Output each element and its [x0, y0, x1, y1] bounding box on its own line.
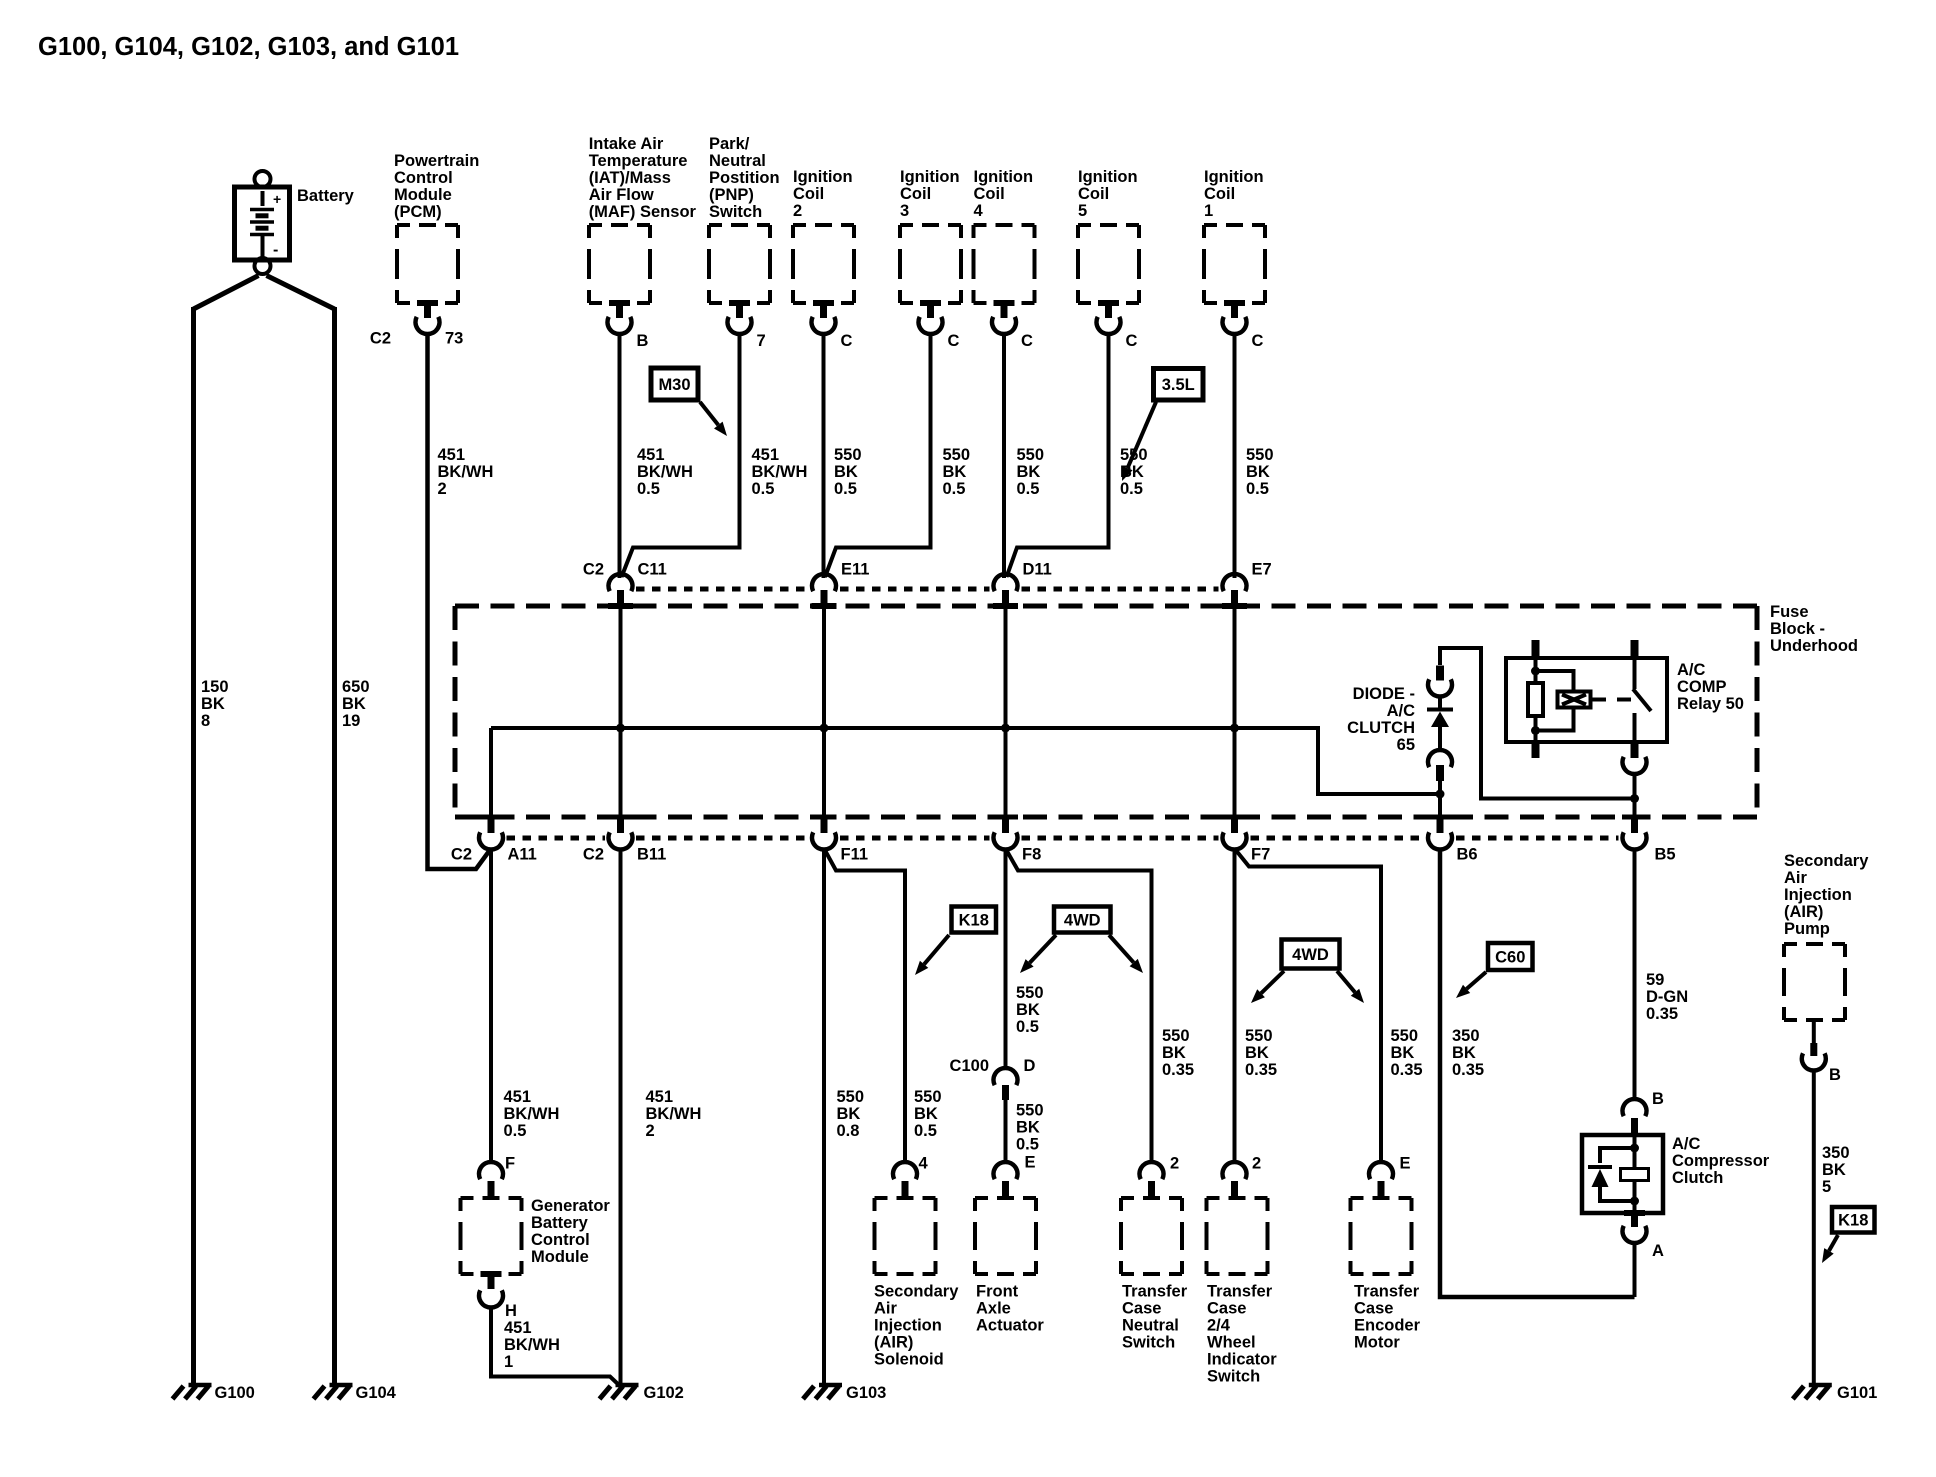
svg-text:Front: Front [976, 1283, 1019, 1301]
svg-text:Air: Air [1784, 869, 1808, 887]
svg-text:DIODE -: DIODE - [1353, 685, 1415, 703]
svg-text:Solenoid: Solenoid [874, 1351, 944, 1369]
svg-text:BK: BK [1391, 1044, 1415, 1062]
svg-text:B6: B6 [1457, 846, 1478, 864]
svg-text:2: 2 [646, 1122, 655, 1140]
svg-text:G100: G100 [215, 1384, 255, 1402]
svg-text:Generator: Generator [531, 1197, 610, 1215]
svg-text:3: 3 [900, 202, 909, 220]
svg-text:CLUTCH: CLUTCH [1347, 719, 1415, 737]
svg-text:-: - [273, 242, 278, 259]
svg-text:E11: E11 [841, 561, 869, 579]
svg-text:BK: BK [914, 1105, 938, 1123]
svg-text:2/4: 2/4 [1207, 1317, 1231, 1335]
svg-text:550: 550 [1245, 1027, 1273, 1045]
svg-text:B5: B5 [1655, 846, 1676, 864]
svg-text:0.8: 0.8 [837, 1122, 860, 1140]
svg-text:451: 451 [646, 1088, 674, 1106]
svg-text:Module: Module [531, 1248, 589, 1266]
svg-text:550: 550 [1162, 1027, 1190, 1045]
svg-text:451: 451 [438, 446, 466, 464]
svg-text:Transfer: Transfer [1122, 1283, 1188, 1301]
svg-text:A/C: A/C [1677, 661, 1706, 679]
svg-text:Coil: Coil [974, 185, 1005, 203]
svg-text:H: H [505, 1302, 517, 1320]
svg-text:550: 550 [1016, 1102, 1044, 1120]
svg-text:Temperature: Temperature [589, 152, 688, 170]
svg-text:550: 550 [834, 446, 862, 464]
svg-text:A/C: A/C [1387, 702, 1416, 720]
svg-text:BK/WH: BK/WH [504, 1336, 560, 1354]
svg-text:65: 65 [1397, 736, 1415, 754]
svg-text:Injection: Injection [874, 1317, 942, 1335]
svg-text:2: 2 [793, 202, 802, 220]
svg-text:4WD: 4WD [1292, 946, 1329, 964]
svg-text:A11: A11 [508, 846, 537, 864]
svg-text:BK: BK [201, 695, 225, 713]
svg-text:Switch: Switch [1122, 1334, 1175, 1352]
svg-text:59: 59 [1646, 971, 1664, 989]
svg-text:COMP: COMP [1677, 678, 1727, 696]
svg-text:C2: C2 [370, 330, 391, 348]
svg-text:Neutral: Neutral [709, 152, 766, 170]
svg-text:Coil: Coil [900, 185, 931, 203]
svg-text:(AIR): (AIR) [1784, 903, 1823, 921]
svg-text:C2: C2 [583, 846, 604, 864]
svg-text:Wheel: Wheel [1207, 1334, 1256, 1352]
svg-text:C: C [1126, 332, 1138, 350]
svg-text:451: 451 [504, 1088, 532, 1106]
svg-text:550: 550 [1391, 1027, 1419, 1045]
svg-text:F11: F11 [841, 846, 869, 864]
svg-text:0.35: 0.35 [1646, 1005, 1678, 1023]
svg-text:M30: M30 [658, 376, 690, 394]
svg-text:0.5: 0.5 [637, 480, 660, 498]
svg-text:Air: Air [874, 1300, 898, 1318]
svg-text:2: 2 [1170, 1155, 1179, 1173]
svg-text:BK: BK [943, 463, 967, 481]
svg-text:150: 150 [201, 678, 229, 696]
svg-text:Case: Case [1122, 1300, 1161, 1318]
svg-text:BK: BK [1822, 1161, 1846, 1179]
svg-text:K18: K18 [1838, 1212, 1868, 1230]
svg-text:Relay 50: Relay 50 [1677, 695, 1744, 713]
svg-text:451: 451 [752, 446, 780, 464]
svg-text:Powertrain: Powertrain [394, 152, 479, 170]
svg-text:BK: BK [1016, 1001, 1040, 1019]
svg-text:BK: BK [1452, 1044, 1476, 1062]
svg-text:Battery: Battery [531, 1214, 589, 1232]
svg-text:Battery: Battery [297, 187, 355, 205]
svg-text:Secondary: Secondary [1784, 852, 1869, 870]
svg-text:Secondary: Secondary [874, 1283, 959, 1301]
svg-text:G103: G103 [846, 1384, 886, 1402]
svg-text:Ignition: Ignition [1078, 168, 1138, 186]
svg-text:350: 350 [1452, 1027, 1480, 1045]
svg-text:Park/: Park/ [709, 135, 750, 153]
svg-text:F7: F7 [1251, 846, 1270, 864]
svg-text:E7: E7 [1252, 561, 1272, 579]
svg-text:Fuse: Fuse [1770, 603, 1809, 621]
svg-text:73: 73 [445, 330, 463, 348]
svg-text:BK/WH: BK/WH [646, 1105, 702, 1123]
svg-text:0.35: 0.35 [1245, 1061, 1277, 1079]
svg-text:1: 1 [1204, 202, 1213, 220]
svg-text:550: 550 [837, 1088, 865, 1106]
svg-text:4WD: 4WD [1064, 911, 1101, 929]
svg-text:BK/WH: BK/WH [438, 463, 494, 481]
svg-text:451: 451 [504, 1319, 532, 1337]
svg-text:A/C: A/C [1672, 1135, 1701, 1153]
svg-text:Postition: Postition [709, 169, 780, 187]
svg-text:2: 2 [1252, 1155, 1261, 1173]
svg-text:BK: BK [1017, 463, 1041, 481]
svg-text:D: D [1024, 1057, 1036, 1075]
svg-text:Coil: Coil [1078, 185, 1109, 203]
svg-text:BK: BK [1016, 1119, 1040, 1137]
svg-text:Intake Air: Intake Air [589, 135, 664, 153]
svg-text:Motor: Motor [1354, 1334, 1400, 1352]
svg-text:Ignition: Ignition [900, 168, 960, 186]
svg-text:550: 550 [1246, 446, 1274, 464]
svg-text:5: 5 [1822, 1178, 1831, 1196]
svg-text:F8: F8 [1022, 846, 1041, 864]
svg-text:Switch: Switch [709, 203, 762, 221]
svg-text:C2: C2 [583, 561, 604, 579]
svg-text:Ignition: Ignition [793, 168, 853, 186]
svg-text:Axle: Axle [976, 1300, 1011, 1318]
svg-text:BK: BK [1245, 1044, 1269, 1062]
svg-text:Case: Case [1354, 1300, 1393, 1318]
svg-text:C: C [948, 332, 960, 350]
svg-text:A: A [1652, 1242, 1664, 1260]
svg-text:0.5: 0.5 [914, 1122, 937, 1140]
svg-text:Case: Case [1207, 1300, 1246, 1318]
svg-text:BK/WH: BK/WH [752, 463, 808, 481]
svg-text:19: 19 [342, 712, 360, 730]
svg-text:C11: C11 [638, 561, 667, 579]
svg-text:7: 7 [757, 332, 766, 350]
svg-text:Indicator: Indicator [1207, 1351, 1277, 1369]
svg-text:F: F [505, 1155, 515, 1173]
svg-text:G100, G104, G102, G103, and G1: G100, G104, G102, G103, and G101 [38, 33, 459, 61]
svg-text:8: 8 [201, 712, 210, 730]
svg-text:Control: Control [531, 1231, 590, 1249]
svg-text:(IAT)/Mass: (IAT)/Mass [589, 169, 671, 187]
svg-text:Underhood: Underhood [1770, 637, 1858, 655]
svg-text:C2: C2 [451, 846, 472, 864]
svg-text:C100: C100 [950, 1057, 989, 1075]
svg-text:Transfer: Transfer [1207, 1283, 1273, 1301]
svg-text:550: 550 [1017, 446, 1045, 464]
svg-text:(AIR): (AIR) [874, 1334, 913, 1352]
svg-text:0.35: 0.35 [1162, 1061, 1194, 1079]
svg-text:BK: BK [1162, 1044, 1186, 1062]
svg-text:E: E [1025, 1154, 1036, 1172]
svg-text:K18: K18 [959, 911, 989, 929]
svg-text:Transfer: Transfer [1354, 1283, 1420, 1301]
svg-text:4: 4 [974, 202, 984, 220]
svg-text:C: C [1252, 332, 1264, 350]
svg-text:0.5: 0.5 [1016, 1018, 1039, 1036]
svg-text:C: C [841, 332, 853, 350]
svg-text:0.5: 0.5 [943, 480, 966, 498]
svg-text:E: E [1400, 1155, 1411, 1173]
svg-text:Neutral: Neutral [1122, 1317, 1179, 1335]
svg-text:G102: G102 [644, 1384, 684, 1402]
svg-text:Ignition: Ignition [974, 168, 1034, 186]
svg-text:BK: BK [834, 463, 858, 481]
svg-text:BK/WH: BK/WH [504, 1105, 560, 1123]
svg-text:BK: BK [1120, 463, 1144, 481]
svg-text:BK: BK [837, 1105, 861, 1123]
svg-text:650: 650 [342, 678, 370, 696]
svg-text:B: B [637, 332, 649, 350]
svg-text:(PNP): (PNP) [709, 186, 754, 204]
svg-text:0.5: 0.5 [504, 1122, 527, 1140]
svg-text:1: 1 [504, 1353, 513, 1371]
svg-text:Clutch: Clutch [1672, 1169, 1723, 1187]
svg-text:B: B [1652, 1090, 1664, 1108]
svg-text:Coil: Coil [793, 185, 824, 203]
svg-text:Module: Module [394, 186, 452, 204]
svg-text:0.5: 0.5 [752, 480, 775, 498]
svg-text:Pump: Pump [1784, 920, 1830, 938]
svg-text:BK: BK [1246, 463, 1270, 481]
svg-text:Ignition: Ignition [1204, 168, 1264, 186]
svg-text:C60: C60 [1495, 948, 1525, 966]
svg-text:Encoder: Encoder [1354, 1317, 1421, 1335]
svg-text:451: 451 [637, 446, 665, 464]
svg-text:D11: D11 [1023, 561, 1052, 579]
svg-text:550: 550 [914, 1088, 942, 1106]
svg-text:0.5: 0.5 [1120, 480, 1143, 498]
svg-text:G104: G104 [356, 1384, 397, 1402]
svg-text:Block -: Block - [1770, 620, 1825, 638]
svg-text:Control: Control [394, 169, 453, 187]
svg-text:Coil: Coil [1204, 185, 1235, 203]
svg-text:550: 550 [943, 446, 971, 464]
svg-text:0.5: 0.5 [1246, 480, 1269, 498]
svg-text:550: 550 [1120, 446, 1148, 464]
svg-text:350: 350 [1822, 1144, 1850, 1162]
svg-text:G101: G101 [1837, 1384, 1877, 1402]
svg-text:Switch: Switch [1207, 1368, 1260, 1386]
svg-text:0.5: 0.5 [1017, 480, 1040, 498]
svg-text:Compressor: Compressor [1672, 1152, 1770, 1170]
svg-text:0.35: 0.35 [1452, 1061, 1484, 1079]
svg-text:0.5: 0.5 [1016, 1136, 1039, 1154]
svg-text:D-GN: D-GN [1646, 988, 1688, 1006]
svg-text:550: 550 [1016, 984, 1044, 1002]
svg-text:4: 4 [919, 1155, 929, 1173]
svg-text:Actuator: Actuator [976, 1317, 1044, 1335]
svg-text:BK: BK [342, 695, 366, 713]
svg-text:3.5L: 3.5L [1162, 376, 1195, 394]
svg-text:B: B [1829, 1066, 1841, 1084]
svg-text:2: 2 [438, 480, 447, 498]
svg-text:0.35: 0.35 [1391, 1061, 1423, 1079]
svg-text:5: 5 [1078, 202, 1087, 220]
svg-text:+: + [273, 191, 281, 207]
svg-text:(MAF) Sensor: (MAF) Sensor [589, 203, 697, 221]
svg-text:0.5: 0.5 [834, 480, 857, 498]
svg-text:Air Flow: Air Flow [589, 186, 654, 204]
svg-text:Injection: Injection [1784, 886, 1852, 904]
svg-text:C: C [1021, 332, 1033, 350]
svg-text:BK/WH: BK/WH [637, 463, 693, 481]
svg-text:(PCM): (PCM) [394, 203, 442, 221]
svg-text:B11: B11 [637, 846, 666, 864]
